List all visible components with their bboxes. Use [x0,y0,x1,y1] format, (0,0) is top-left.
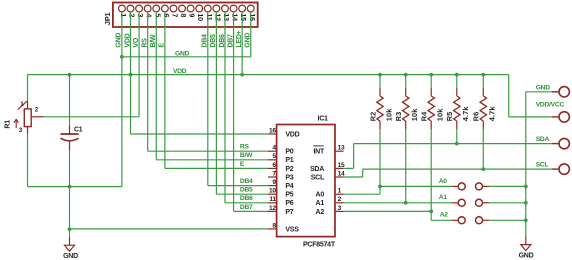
svg-text:14: 14 [338,170,345,177]
svg-text:SDA: SDA [310,166,324,173]
svg-text:4: 4 [145,13,154,17]
svg-text:10: 10 [196,13,205,21]
svg-text:4: 4 [272,145,276,152]
svg-text:P7: P7 [285,209,293,216]
svg-text:IC1: IC1 [318,115,329,122]
svg-text:5: 5 [272,153,276,160]
svg-text:4.7k: 4.7k [488,106,497,122]
svg-text:GND: GND [63,253,78,260]
svg-text:A0: A0 [439,178,448,185]
svg-text:13: 13 [338,145,345,152]
svg-text:R4: R4 [420,111,429,121]
svg-text:P2: P2 [285,166,293,173]
svg-text:VDD/VCC: VDD/VCC [536,102,565,109]
svg-text:JP1: JP1 [103,13,112,26]
svg-text:5: 5 [153,13,162,17]
svg-text:16: 16 [269,127,276,134]
svg-text:3: 3 [338,205,342,212]
svg-text:A1: A1 [316,200,325,207]
svg-text:SDA: SDA [536,136,550,143]
svg-text:9: 9 [272,179,276,186]
svg-text:R1: R1 [4,120,11,129]
svg-text:6: 6 [272,162,276,169]
svg-text:9: 9 [188,13,197,17]
svg-text:PCF8574T: PCF8574T [303,242,336,249]
svg-text:A0: A0 [316,192,325,199]
svg-text:14: 14 [231,13,240,21]
svg-text:4.7k: 4.7k [461,106,470,122]
svg-text:P0: P0 [285,149,293,156]
svg-text:3: 3 [136,13,145,17]
svg-text:VSS: VSS [285,226,299,233]
svg-text:GND: GND [175,50,190,57]
svg-text:7: 7 [272,170,276,177]
svg-text:R5: R5 [445,112,454,122]
svg-text:B/W: B/W [240,152,253,159]
svg-text:GND: GND [519,253,534,260]
svg-text:R2: R2 [368,112,377,122]
svg-text:10k: 10k [436,108,445,122]
svg-text:VDD: VDD [285,131,299,138]
svg-text:A2: A2 [440,212,449,219]
svg-text:2: 2 [127,13,136,17]
svg-text:7: 7 [170,13,179,17]
svg-text:2: 2 [338,196,342,203]
svg-text:C1: C1 [74,126,83,133]
svg-text:INT: INT [313,149,325,156]
svg-text:DB6: DB6 [240,195,253,202]
svg-text:12: 12 [213,13,222,21]
svg-text:15: 15 [239,13,248,21]
svg-text:E: E [240,161,245,168]
svg-text:R3: R3 [394,112,403,122]
svg-text:VDD: VDD [173,68,187,75]
svg-text:SCL: SCL [536,162,549,169]
svg-text:P6: P6 [285,200,293,207]
svg-text:13: 13 [222,13,231,21]
svg-text:DB4: DB4 [240,178,253,185]
svg-text:SCL: SCL [311,174,325,181]
svg-text:12: 12 [269,205,276,212]
svg-text:15: 15 [338,162,345,169]
svg-text:3: 3 [19,127,23,134]
svg-text:P5: P5 [285,192,293,199]
svg-text:2: 2 [35,107,39,114]
svg-text:1: 1 [338,188,342,195]
svg-text:6: 6 [162,13,171,17]
svg-text:10k: 10k [384,108,393,122]
svg-text:16: 16 [248,13,257,21]
svg-text:10: 10 [269,188,276,195]
svg-text:P4: P4 [285,183,293,190]
svg-text:R6: R6 [472,112,481,122]
svg-text:GND: GND [536,85,551,92]
svg-text:11: 11 [269,196,276,203]
svg-text:DB5: DB5 [240,187,253,194]
svg-text:1: 1 [119,13,128,17]
svg-text:DB7: DB7 [240,204,253,211]
svg-text:A2: A2 [316,209,325,216]
svg-text:P3: P3 [285,174,293,181]
svg-text:RS: RS [240,144,250,151]
svg-text:8: 8 [179,13,188,17]
svg-text:11: 11 [205,13,214,20]
svg-text:10k: 10k [410,108,419,122]
svg-text:8: 8 [272,222,276,229]
svg-text:A1: A1 [439,194,448,201]
svg-text:P1: P1 [285,157,293,164]
